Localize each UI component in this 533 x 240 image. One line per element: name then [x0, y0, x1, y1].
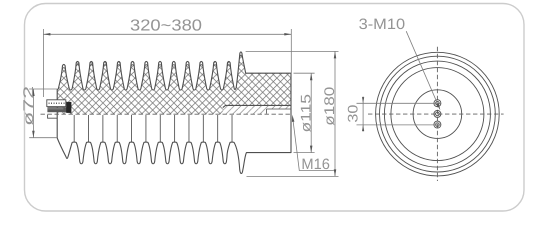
lower half exterior outline (sheds silhouette) [57, 105, 291, 173]
arrows o180 [334, 51, 337, 58]
arrows 320~380 [43, 33, 50, 36]
left terminal stud: flange plate [66, 102, 71, 113]
arrows o115 [310, 73, 313, 80]
hub circle [413, 90, 462, 139]
arrows dim 30 [362, 97, 364, 103]
shed edge verticals (exterior view) [74, 115, 232, 142]
dim 30 lines [357, 31, 441, 131]
dim 320~380 lines [43, 29, 291, 97]
svg-text:M16: M16 [301, 156, 330, 173]
insulator body: sectioned upper half (sheds + housing) [57, 52, 291, 114]
left terminal stud: threaded section [47, 100, 66, 107]
end view concentric rings [376, 52, 500, 176]
dim o115 lines [294, 73, 315, 152]
end view centerlines [368, 113, 504, 115]
svg-text:ø72: ø72 [20, 86, 36, 126]
svg-text:30: 30 [345, 104, 361, 122]
arrow 3-M10 leader [436, 103, 440, 110]
M16 leader line [293, 119, 334, 171]
dim o72 lines [29, 89, 57, 138]
3x M10 bolt holes [434, 100, 441, 128]
end cap metal sleeve (single hatch section) [223, 105, 291, 114]
arrow M16 leader [292, 115, 294, 122]
dim o180 lines [246, 51, 339, 176]
main centerline (dashed) [41, 113, 291, 115]
left terminal stud: shank bar [47, 107, 66, 112]
svg-text:ø180: ø180 [321, 86, 337, 125]
svg-text:320~380: 320~380 [130, 18, 202, 35]
shed inner tip lines [62, 55, 242, 69]
svg-text:ø115: ø115 [298, 94, 314, 133]
arrows o72 [32, 89, 35, 96]
stud exterior below centerline [48, 115, 58, 119]
svg-text:3-M10: 3-M10 [359, 16, 406, 33]
M16 thread bore lines [267, 109, 292, 114]
3-M10 leader line [406, 31, 439, 108]
